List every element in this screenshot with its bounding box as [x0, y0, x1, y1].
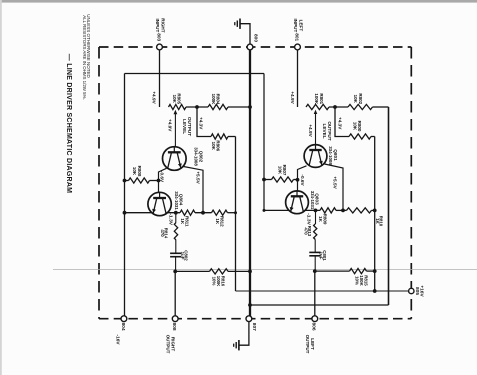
wire: vertical from R806/R812 down to +16V line — [235, 137, 237, 292]
junction R812/vertical — [234, 211, 237, 214]
resistor R802 10K — [348, 104, 373, 109]
svg-text:1K: 1K — [180, 218, 185, 225]
wire ground to node 800 — [240, 24, 250, 44]
svg-text:— LINE DRIVER SCHEMATIC DIAGRA: — LINE DRIVER SCHEMATIC DIAGRAM — [65, 54, 72, 193]
capacitor C802 1uF — [175, 240, 177, 253]
resistor R816 100K 10% — [175, 270, 209, 272]
junction Q803 collector / R809 / R813 — [314, 209, 318, 213]
svg-text:LEVEL: LEVEL — [322, 123, 327, 138]
R805 wiper arrow — [174, 110, 178, 114]
wire R800 to vertical — [371, 136, 375, 138]
wire node 807 to ground — [239, 322, 249, 346]
node 805 +16V — [409, 288, 414, 293]
potentiometer R805 10K — [169, 104, 187, 109]
svg-text:334-1031: 334-1031 — [310, 191, 315, 210]
svg-text:-0.6V: -0.6V — [160, 171, 165, 183]
junction output node left channel — [313, 269, 317, 273]
resistor R804 100K — [208, 104, 228, 109]
wire Q801 emitter (+5.5V) — [325, 164, 344, 210]
junction ground return/bus — [248, 303, 252, 307]
svg-text:806: 806 — [311, 322, 317, 330]
emitter row wire (right half) — [264, 209, 320, 211]
scan edge left band — [0, 0, 2, 375]
svg-text:1K: 1K — [318, 216, 323, 223]
wire Q803 base — [297, 180, 299, 192]
resistor R800 10K — [349, 134, 371, 139]
node 801 LEFT INPUT — [295, 44, 301, 50]
resistor R813 470 — [315, 210, 317, 224]
svg-text:334-1008: 334-1008 — [328, 146, 333, 165]
svg-text:OUTPUT: OUTPUT — [305, 335, 310, 354]
wire R804 to ground bus — [228, 106, 250, 108]
svg-text:RIGHT: RIGHT — [160, 18, 165, 32]
dashed enclosure border — [99, 46, 411, 48]
svg-text:OUTPUT: OUTPUT — [165, 335, 170, 354]
svg-text:800: 800 — [253, 34, 259, 42]
svg-text:100K: 100K — [314, 93, 319, 105]
wire: ground return to bus — [250, 304, 389, 306]
ground (top, input common) — [239, 19, 241, 29]
wire +4.3V node down to R800 — [335, 107, 349, 137]
wire R802 to right drop — [373, 106, 389, 108]
svg-text:-1.3V: -1.3V — [167, 213, 173, 225]
ground bus wire (node 800 to node 807) — [249, 50, 251, 317]
svg-text:+16V: +16V — [419, 285, 425, 297]
wire: vertical from R802 down to ground return — [388, 107, 390, 305]
R801 wiper arrow — [314, 110, 318, 114]
wire: -16V feed line (left rail to right rail) — [125, 73, 265, 75]
svg-text:808: 808 — [171, 322, 177, 330]
resistor R812 1K — [212, 210, 228, 215]
resistor R807 10K — [264, 179, 272, 181]
svg-text:-16V: -16V — [116, 335, 121, 346]
svg-text:807: 807 — [251, 323, 257, 331]
+16V line to node 805 — [236, 290, 409, 292]
ground (bottom, output common) — [238, 340, 240, 350]
junction R815/vertical — [373, 269, 377, 273]
resistor R810 1K — [347, 208, 372, 213]
svg-text:803: 803 — [156, 33, 162, 41]
wire pot to R802 — [329, 106, 348, 108]
node 807 (output common) — [246, 316, 252, 322]
junction rail/emitter row — [263, 209, 266, 212]
svg-text:+4.9V: +4.9V — [290, 91, 295, 104]
svg-text:1uF: 1uF — [180, 252, 185, 260]
svg-text:+4.9V: +4.9V — [151, 91, 156, 104]
node 803 RIGHT INPUT — [157, 44, 163, 50]
node junction R805/R804 — [195, 105, 199, 109]
svg-text:1K: 1K — [215, 218, 220, 225]
svg-text:801: 801 — [294, 33, 300, 41]
node 800 — [247, 44, 253, 50]
junction R801/R802 — [333, 105, 337, 109]
svg-text:+5.5V: +5.5V — [196, 171, 201, 184]
svg-text:-0.6V: -0.6V — [300, 174, 305, 186]
scan edge top band — [0, 0, 477, 3]
svg-text:+4.9V: +4.9V — [308, 124, 313, 137]
wire Q804 base — [158, 181, 160, 194]
svg-text:INPUT: INPUT — [293, 19, 298, 33]
svg-text:+4.3V: +4.3V — [198, 117, 203, 130]
svg-text:470: 470 — [160, 229, 165, 237]
emitter row wire (left channel) — [125, 212, 181, 214]
junction output node right channel — [173, 270, 177, 274]
svg-text:ALL RESISTORS ARE IN OHMS 1/2W: ALL RESISTORS ARE IN OHMS 1/2W 5%. — [82, 15, 87, 99]
junction Q804 collector / R811 / R814 — [174, 211, 178, 215]
svg-text:+5.5V: +5.5V — [332, 176, 337, 189]
svg-text:1uF: 1uF — [319, 252, 324, 260]
junction R807/Q801 collector/Q803 base — [296, 178, 300, 182]
svg-text:10K: 10K — [277, 166, 282, 175]
resistor R815 100K 10% — [315, 270, 350, 272]
resistor R808 10K — [125, 180, 129, 182]
junction rail/R808 — [123, 179, 127, 183]
capacitor C801 1uF — [314, 239, 316, 252]
svg-text:+4.9V: +4.9V — [168, 119, 173, 132]
wire: left input down to level pot — [297, 50, 299, 108]
junction R816/bus — [248, 270, 252, 274]
wire +4.3V node down to R806 — [197, 107, 211, 137]
svg-text:-1.3V: -1.3V — [305, 213, 311, 225]
svg-text:10%: 10% — [211, 277, 216, 286]
svg-text:1K: 1K — [375, 218, 380, 224]
node 808 RIGHT OUTPUT — [172, 316, 178, 322]
resistor R809 1K — [320, 208, 336, 213]
faint scan crease line — [53, 269, 477, 271]
wire pot to R804 — [186, 106, 208, 108]
junction rail/R807 — [262, 178, 266, 182]
wire output node down to node 808 — [174, 271, 176, 316]
svg-text:10K: 10K — [172, 95, 177, 104]
svg-text:10K: 10K — [132, 167, 137, 176]
resistor R811 1K — [180, 210, 195, 215]
svg-text:334-1008: 334-1008 — [194, 147, 199, 166]
svg-text:10K: 10K — [353, 122, 358, 131]
resistor R806 10K — [211, 134, 228, 139]
junction R810/vertical — [373, 209, 377, 213]
potentiometer R801 100K — [306, 104, 329, 109]
svg-text:+4.3V: +4.3V — [338, 117, 343, 130]
resistor R814 470 — [175, 213, 177, 223]
wire Q802 collector to junction — [159, 168, 167, 180]
svg-text:10K: 10K — [353, 95, 358, 104]
wire: right input down to level pot — [159, 50, 161, 108]
junction emitters R811/R812 — [201, 211, 205, 215]
node 804 -16V — [121, 316, 127, 322]
wire R806 to +16V drop — [228, 136, 236, 138]
svg-text:INPUT: INPUT — [155, 19, 160, 33]
wire: right channel rail — [263, 74, 265, 211]
svg-text:470: 470 — [304, 227, 309, 235]
svg-text:334-1031: 334-1031 — [174, 191, 179, 210]
svg-text:804: 804 — [120, 322, 126, 330]
svg-text:LEVEL: LEVEL — [182, 119, 187, 134]
node 806 LEFT OUTPUT — [312, 316, 318, 322]
wire Q801 collector to junction — [298, 166, 307, 180]
svg-text:100K: 100K — [211, 94, 216, 106]
junction +16V/vertical — [373, 289, 377, 293]
wire: vertical R800/R810/R815 down to +16V line — [374, 137, 376, 292]
svg-text:10%: 10% — [355, 276, 360, 285]
junction emitters R809/R810 — [341, 209, 345, 213]
junction R804/bus — [248, 105, 252, 109]
wire output node down to node 806 — [314, 271, 316, 316]
svg-text:10K: 10K — [211, 142, 216, 151]
junction rail/emitter row — [123, 211, 127, 215]
junction R808/Q802 collector/Q804 base — [157, 179, 161, 183]
wire: left rail (-16V) — [124, 74, 126, 317]
svg-text:LEFT: LEFT — [298, 20, 303, 32]
wire Q802 emitter (+5.5V) — [184, 167, 204, 213]
